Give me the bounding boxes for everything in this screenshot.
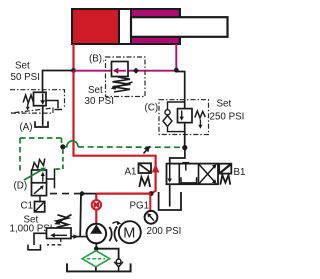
svg-text:PG1: PG1 [130, 201, 150, 212]
valve C internal top branch [168, 102, 185, 110]
solenoid A1 spring M [139, 177, 150, 187]
tank symbol DCV [159, 192, 181, 210]
wire C1 outlet to tank [34, 233, 47, 245]
pilot line green right vertical [61, 138, 63, 146]
valve A envelope (dash-dot) [10, 90, 65, 113]
tank symbol valve A [35, 121, 48, 127]
node pilot to valve C outlet junction [182, 145, 187, 150]
valve B spring [111, 77, 133, 92]
tank symbol main [67, 263, 131, 271]
svg-text:(D): (D) [14, 181, 28, 192]
solenoid A1 box [139, 163, 152, 173]
relief valve B body [112, 62, 129, 77]
node pilot junction [60, 144, 65, 149]
wire magenta rod-end port [175, 44, 177, 71]
solenoid B1 box [219, 164, 231, 174]
svg-text:(A): (A) [20, 122, 33, 133]
svg-text:M: M [123, 226, 135, 242]
cylinder rod [131, 17, 228, 37]
node junction rod line [174, 68, 179, 73]
test coupling (red) [92, 200, 101, 209]
wire C1 inlet from pump line [71, 234, 88, 239]
cylinder rod-end fluid top band (magenta) [131, 9, 180, 17]
valve D body lower box [32, 183, 47, 196]
wire tank return branch [96, 249, 118, 260]
valve C internal bottom branch [168, 127, 185, 132]
suction strainer (green) [82, 251, 109, 267]
DCV divider left [178, 164, 180, 185]
wire red down past A1 [151, 155, 155, 194]
svg-text:(C): (C) [145, 103, 159, 114]
valve D bottom port box [35, 196, 45, 212]
wire black pilot elbow valve D [47, 169, 55, 189]
relief valve C1 spring [57, 215, 69, 228]
valve D pilot arrow (green) [24, 168, 46, 180]
DCV right box crossed arrows [199, 164, 217, 183]
wire red pump riser upper [95, 194, 97, 201]
wire red vertical to pump line [72, 71, 74, 156]
node suction junction [94, 246, 99, 251]
directional valve body [167, 164, 219, 185]
wire pump suction [95, 243, 97, 250]
svg-text:C1: C1 [21, 201, 34, 212]
DCV center box blocked P stub [182, 163, 189, 171]
svg-text:Set: Set [217, 99, 232, 110]
wire black drain horizontal to pump line [82, 193, 96, 195]
valve C spring arrow [198, 120, 202, 129]
wire black DCV feed jog [170, 148, 185, 164]
DCV left box flow arrow [168, 164, 172, 183]
valve A spring arrow [26, 104, 30, 111]
DCV divider right [198, 164, 200, 185]
pilot line green horizontal upper [20, 137, 62, 139]
wire red cap-end port [72, 44, 74, 71]
svg-text:Set: Set [88, 85, 103, 96]
wire valve C outlet [184, 123, 186, 148]
valve B envelope (dash-dot) [106, 57, 146, 97]
svg-text:250 PSI: 250 PSI [210, 112, 245, 123]
valve D spring [32, 159, 45, 171]
pressure gauge PG1 [145, 211, 158, 224]
return funnel [114, 259, 123, 271]
wire red horizontal to DCV [73, 155, 156, 157]
valve A vent elbow [46, 101, 62, 110]
wire black elbow to valve C [176, 72, 184, 110]
svg-text:30 PSI: 30 PSI [85, 96, 114, 107]
relief valve A body [34, 92, 47, 105]
node junction cap line [71, 68, 76, 73]
tank symbol C1 [28, 245, 41, 250]
node junction pump outlet [149, 191, 154, 196]
check valve in C [163, 110, 172, 127]
wire magenta rod-side horizontal [74, 70, 177, 72]
svg-text:50 PSI: 50 PSI [11, 72, 40, 83]
wire strainer to tank [95, 267, 97, 271]
wire red pump outlet horizontal [96, 193, 151, 195]
pilot flow arrow on green line [144, 146, 151, 154]
cylinder cap-end fluid (red) [72, 9, 119, 44]
wire valve A drain [42, 106, 44, 126]
pump [87, 224, 107, 244]
svg-text:(B).: (B). [89, 54, 105, 65]
wire black to valve A [43, 71, 74, 93]
solenoid B1 spring M [220, 175, 230, 185]
node drain junction [80, 191, 85, 196]
node diamond junction at valve B outlet [133, 68, 139, 74]
shaft coupling [109, 221, 121, 242]
valve A spring [23, 95, 33, 103]
wire black drain vertical [79, 194, 82, 237]
DCV center box U path [181, 177, 197, 183]
pilot line green left vertical [19, 138, 21, 171]
wire red pump riser lower [95, 210, 97, 225]
red flow arrow at A1 [152, 164, 160, 173]
relief valve C1 adjust arrow [54, 215, 71, 225]
label Set 50 PSI [11, 61, 40, 84]
cylinder barrel outline [72, 9, 180, 44]
cylinder piston [119, 9, 131, 44]
pilot line green crossover arc [66, 141, 79, 147]
pilot line green drop to valve D [54, 150, 63, 170]
svg-text:A1: A1 [125, 167, 137, 178]
counterbalance valve C body [178, 109, 193, 123]
cylinder rod-end fluid bottom band (magenta) [131, 36, 180, 44]
label Set 250 PSI [210, 99, 245, 123]
label Set 30 PSI [85, 85, 114, 107]
pilot line green horizontal to valve C outlet [78, 146, 183, 148]
valve D body upper box [32, 170, 47, 183]
wire red gauge branch [149, 195, 151, 211]
svg-text:Set: Set [15, 61, 30, 72]
wire DCV tank drop [169, 184, 171, 206]
svg-text:200 PSI: 200 PSI [147, 226, 182, 237]
svg-text:B1: B1 [234, 167, 246, 178]
valve C envelope (dash-dot) [159, 100, 209, 135]
wire valve D drain dashed [50, 193, 82, 195]
label Set 1,000 PSI [10, 215, 53, 235]
electric motor M [119, 221, 141, 243]
valve C spring [195, 111, 206, 118]
C1 drain dashed [47, 239, 61, 245]
relief valve C1 body [47, 228, 72, 239]
